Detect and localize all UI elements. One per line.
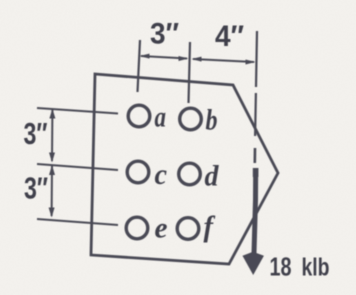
extension line x=189 (top dims middle) — [189, 42, 191, 103]
hole b — [180, 108, 202, 130]
hole c — [127, 161, 149, 183]
svg-text:e: e — [155, 212, 168, 245]
force line of action segment 2 — [254, 93, 257, 136]
svg-text:4″: 4″ — [215, 20, 244, 53]
force arrowhead — [243, 252, 264, 275]
arrowhead down of left 3in upper — [49, 153, 55, 163]
row c extension line — [37, 164, 118, 170]
force vector shaft — [254, 168, 256, 253]
arrowhead up of left 3in upper — [49, 109, 55, 119]
svg-text:3″: 3″ — [24, 116, 48, 151]
dimension line left 3in lower — [51, 166, 53, 216]
force line of action upper segment — [256, 31, 257, 87]
arrowhead right of top 4in — [246, 60, 256, 65]
svg-text:3″: 3″ — [24, 171, 48, 206]
svg-text:b: b — [206, 104, 218, 137]
arrowhead down of left 3in lower — [49, 208, 55, 218]
arrowhead right of top 3in — [179, 56, 189, 61]
svg-text:d: d — [205, 160, 220, 193]
extension line x=139 (top dims left) — [138, 40, 141, 92]
force vector shaft top blob — [253, 168, 259, 177]
force line of action dash inside plate — [254, 148, 257, 163]
row a extension line — [37, 108, 118, 114]
dimension line left 3in upper — [51, 110, 53, 161]
arrowhead up of left 3in lower — [49, 165, 55, 175]
dimension line 3in top — [141, 56, 187, 59]
hole d — [179, 163, 201, 185]
svg-text:18: 18 — [270, 252, 292, 282]
row e extension line — [37, 219, 118, 225]
hole e — [126, 217, 148, 239]
svg-text:a: a — [155, 101, 167, 134]
hole a — [128, 105, 150, 127]
arrowhead left of top 4in — [192, 57, 202, 62]
plate outline — [91, 74, 278, 264]
svg-text:klb: klb — [302, 254, 330, 282]
hole f — [177, 218, 199, 240]
dimension line 4in top — [193, 59, 254, 62]
svg-text:3″: 3″ — [150, 18, 179, 51]
arrowhead left of top 3in — [140, 54, 150, 59]
svg-text:c: c — [155, 158, 168, 191]
